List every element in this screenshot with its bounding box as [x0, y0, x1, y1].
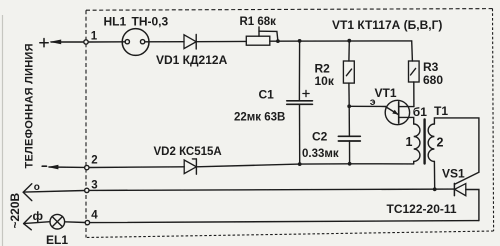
svg-text:1: 1 — [406, 135, 413, 149]
arrowhead on minus lead — [48, 165, 59, 170]
wire: VD1 to resistor R1 — [196, 40, 246, 42]
dashed enclosure border of device — [85, 9, 494, 238]
svg-text:R1 68к: R1 68к — [240, 16, 277, 28]
junction C1 bottom node — [298, 162, 302, 166]
wire: row3 rail terminal 3 to VS1 cathode — [89, 189, 454, 190]
wire: C1 top lead — [298, 41, 300, 100]
transformer T1 winding 1 — [414, 124, 420, 162]
lamp EL1 (incandescent) — [50, 214, 65, 229]
terminal 3 — [85, 188, 89, 192]
transformer T1 winding 2 — [428, 124, 434, 162]
resistor R2 body — [343, 61, 354, 83]
capacitor C2 — [338, 135, 360, 137]
wire: VS1 gate lead — [455, 172, 479, 184]
capacitor C1 (electrolytic) — [287, 100, 313, 102]
open arrowhead on neutral lead — [23, 184, 32, 192]
wire: terminal 2 to zener VD2 — [89, 166, 184, 169]
wire: top rail drop to R3 — [411, 41, 414, 61]
wire: R2 top lead — [348, 41, 350, 61]
transformer T1 core — [423, 120, 425, 164]
zener diode VD2 — [184, 160, 196, 174]
svg-text:4: 4 — [91, 210, 98, 222]
svg-text:о: о — [34, 182, 40, 193]
svg-text:~220В: ~220В — [8, 192, 22, 228]
plus polarity sign — [40, 39, 48, 47]
junction R1 wiper node — [276, 39, 280, 43]
svg-text:б1: б1 — [413, 105, 427, 119]
svg-text:22мк 63В: 22мк 63В — [234, 112, 285, 124]
wire: VT1 base1 lead to T1 winding 1 — [399, 117, 414, 124]
svg-text:2: 2 — [437, 136, 444, 150]
svg-text:э: э — [370, 96, 376, 108]
svg-text:C2: C2 — [312, 129, 328, 143]
terminal 4 — [85, 220, 89, 224]
junction winding 2 to cathode rail — [433, 187, 437, 191]
svg-text:10к: 10к — [315, 74, 335, 88]
wire: mains neutral lead to terminal 3 — [24, 191, 85, 193]
svg-text:VT1 КТ117А (Б,В,Г): VT1 КТ117А (Б,В,Г) — [332, 18, 442, 32]
svg-text:VS1: VS1 — [442, 166, 465, 180]
C1 plus polarity mark — [303, 90, 309, 96]
junction emitter node — [347, 104, 351, 108]
wire: telephone line minus lead to terminal 2 — [49, 166, 85, 168]
svg-text:T1: T1 — [434, 104, 448, 118]
junction R2 top node — [347, 39, 351, 43]
wire: telephone line plus lead to terminal 1 — [51, 41, 85, 43]
wire: R2 bottom lead to emitter node — [348, 83, 350, 106]
svg-text:680: 680 — [423, 73, 443, 87]
open arrowhead on phase lead — [24, 216, 32, 224]
wire: top rail R1 to R3 — [270, 40, 412, 42]
svg-text:3: 3 — [91, 179, 97, 191]
wire: winding 1 bottom lead to row2 rail — [413, 162, 415, 164]
wire: C2 top lead — [348, 106, 350, 136]
junction C1 top node — [298, 39, 302, 43]
svg-text:0.33мк: 0.33мк — [302, 148, 339, 160]
resistor R3 body — [409, 61, 420, 82]
R1 wiper tap wire — [258, 27, 260, 36]
svg-text:C1: C1 — [259, 88, 275, 102]
neon lamp HL1 — [122, 29, 149, 56]
svg-text:2: 2 — [91, 155, 97, 167]
transistor VT1 (unijunction) body — [385, 100, 409, 124]
svg-text:VT1: VT1 — [375, 86, 397, 100]
wire: row2 rail VD2 to T1 winding 1 — [196, 164, 413, 167]
svg-text:ф: ф — [33, 209, 44, 223]
resistor R1 (trimmer) body — [246, 36, 269, 45]
wire: lamp HL1 to diode VD1 — [145, 41, 184, 43]
svg-text:VD2 КС515А: VD2 КС515А — [154, 146, 222, 158]
wire: winding 2 bottom lead — [433, 162, 435, 190]
diode VD1 — [184, 35, 196, 49]
wire: VT1 base2 lead to R3 — [399, 106, 414, 108]
wire: VS1 anode to row4 rail — [466, 190, 479, 221]
svg-text:ТН-0,3: ТН-0,3 — [132, 15, 169, 29]
wire: terminal 1 to lamp HL1 — [88, 41, 125, 43]
terminal 2 — [85, 165, 89, 169]
minus polarity sign — [42, 165, 46, 167]
wire: emitter node to VT1 emitter — [349, 105, 385, 107]
wire: lamp EL1 to mains phase lead — [25, 222, 50, 224]
wire: R3 bottom lead to base2 — [413, 82, 415, 107]
arrowhead on plus lead — [50, 40, 62, 45]
wire: C2 bottom lead — [349, 141, 351, 164]
junction C2 bottom node — [348, 162, 352, 166]
svg-text:HL1: HL1 — [104, 15, 127, 29]
svg-text:1: 1 — [91, 31, 98, 43]
svg-text:ТЕЛЕФОННАЯ ЛИНИЯ: ТЕЛЕФОННАЯ ЛИНИЯ — [24, 43, 36, 168]
wire: row4 rail to terminal 4 — [90, 221, 479, 223]
thyristor VS1 — [453, 183, 455, 195]
svg-text:EL1: EL1 — [46, 233, 68, 246]
wire: C1 bottom lead — [299, 104, 301, 164]
svg-text:VD1 КД212А: VD1 КД212А — [156, 53, 228, 67]
wire: winding 2 top lead to VS1 gate — [434, 118, 479, 172]
svg-text:ТС122-20-11: ТС122-20-11 — [387, 202, 457, 216]
wire: terminal 4 to lamp EL1 — [65, 221, 86, 224]
terminal 1 — [84, 40, 88, 44]
